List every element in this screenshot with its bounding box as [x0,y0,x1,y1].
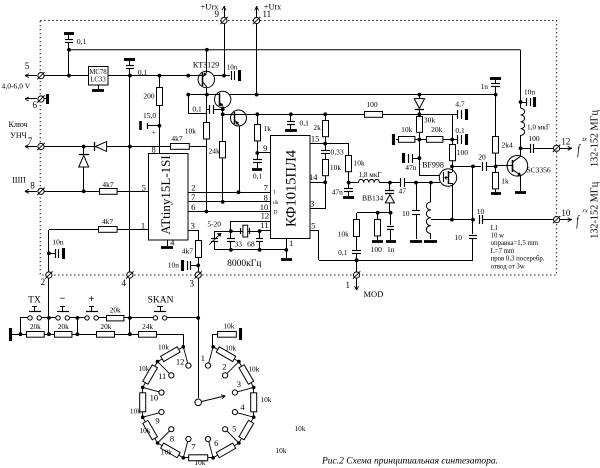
svg-text:2k4: 2k4 [502,140,514,149]
rotary contact 6 [205,436,210,441]
svg-text:0,33: 0,33 [331,147,344,156]
pin 5 [38,73,44,79]
ATtiny pin1 row with resistor 4k7 [117,229,149,231]
wire: row t y=192.3 [188,192,271,194]
capacitor 0,1 to ground at pin9 [257,153,259,160]
svg-text:1k: 1k [264,124,272,133]
resistor 24k [139,332,157,338]
diode on pin7 row (cathode left) [94,142,96,151]
svg-text:3: 3 [310,199,314,209]
junction [76,332,80,336]
wire: MOD bus y=260.2 [319,260,473,262]
resistor 20k c [97,332,115,338]
svg-text:100: 100 [528,134,540,143]
svg-text:132-152 МГц: 132-152 МГц [589,110,600,167]
KF101 pin 3 dogleg [310,208,325,210]
junction [205,210,209,214]
junction [388,181,392,185]
svg-text:4,7: 4,7 [455,99,465,108]
svg-text:10k: 10k [260,395,271,404]
junction [252,415,256,419]
svg-text:1,8 мкГ: 1,8 мкГ [359,171,382,179]
KF101 pin 5 dogleg [310,230,319,232]
junction [186,93,190,97]
BF998 source down to tap [452,183,454,220]
varactor diode BB134 [389,183,391,190]
KT3129 collector down [206,88,208,95]
SC3356 emitter ground [520,175,522,191]
junction [376,211,380,215]
svg-text:10k: 10k [354,158,366,167]
junction [347,181,351,185]
rotary contact 8 [169,427,174,432]
svg-text:отвод от 3w: отвод от 3w [491,263,525,270]
svg-text:8: 8 [264,192,268,202]
resistor 10k ring [142,387,144,417]
transistor KT3129 (PNP) [198,71,214,87]
junction [418,93,422,97]
svg-text:6: 6 [32,100,37,110]
KF101 pin 15 stub [310,143,325,145]
junction [82,189,86,193]
resistor 20k b [55,332,72,338]
junction [450,138,454,142]
svg-text:11: 11 [158,371,166,381]
pin 7 [38,143,44,149]
junction [128,145,132,149]
capacitor 0,1 with chassis bar [452,139,457,141]
pin 11 +Utx [256,24,258,95]
junction [237,441,241,445]
svg-text:1k: 1k [501,176,509,185]
svg-text:0,1: 0,1 [300,118,310,127]
wire: down to pin 2 connector [48,230,50,272]
rotary wiper [195,399,202,406]
wire: to 10k right column [325,143,349,145]
wire: rail A corner down [520,50,522,102]
junction [323,181,327,185]
KF101 pin 1 ground [286,239,288,258]
svg-text:TX: TX [28,295,41,305]
button minus [56,316,60,320]
junction [429,181,433,185]
svg-text:5: 5 [311,221,315,231]
junction [196,316,200,320]
resistor 20k top [107,316,124,321]
svg-text:10k: 10k [225,343,236,352]
svg-text:ШП: ШП [12,176,26,185]
rotary contact 9 [159,410,164,415]
svg-text:20: 20 [478,153,486,162]
junction [76,316,80,320]
KF101 pin 12 stub to crystal [231,221,271,223]
junction [158,74,162,78]
junction [221,112,225,116]
capacitor 0,1 at Q2 emitter [188,95,190,114]
svg-text:rx: rx [582,207,587,214]
resistor 10k ring [158,443,184,458]
junction [222,74,226,78]
capacitor 47 [390,182,401,184]
KF101 pin 11 stub [260,230,271,232]
resistor 200 [159,76,161,87]
svg-text:10k: 10k [295,424,306,433]
pin 5 input wire [44,75,88,77]
svg-text:10k: 10k [140,426,151,435]
ground under MC78 [98,85,100,89]
svg-text:10: 10 [561,208,571,218]
svg-text:2: 2 [191,182,195,192]
svg-text:L=7 mm: L=7 mm [491,248,515,255]
pin 2 [46,272,52,278]
junction [141,386,145,390]
junction [128,316,132,320]
wire: 4k7 to 10k junction [189,146,206,148]
junction [519,146,523,150]
transistor SC3356 (NPN) [507,156,528,177]
KF101 pin 9 stub [257,152,271,154]
junction [323,142,327,146]
svg-text:68: 68 [247,240,255,249]
svg-text:10n: 10n [168,260,180,269]
resistor 4k7 to ATtiny top [171,144,190,150]
svg-text:4k7: 4k7 [102,180,114,189]
junction [205,48,209,52]
svg-text:10k: 10k [194,458,205,467]
svg-text:4,0-6,0 V: 4,0-6,0 V [2,81,31,90]
wire: gate1 to BF998 [416,182,440,184]
svg-text:+: + [89,294,95,305]
wire: oscillator ground rail [215,249,286,251]
capacitor 10n with chassis bar [224,75,230,77]
button TX [28,316,32,320]
svg-text:10k: 10k [338,229,350,238]
junction [82,145,86,149]
junction [221,107,225,111]
svg-text:clk: clk [273,201,279,206]
svg-text:КФ1015ПЛ4: КФ1015ПЛ4 [283,149,299,227]
svg-text:100: 100 [371,245,383,254]
resistor 10k left column [323,160,329,176]
junction [258,229,262,233]
wire 2k to pin15 [325,137,327,144]
svg-text:MOD: MOD [364,289,384,299]
wire: 4k7 to ATtiny pin5 [117,191,149,193]
capacitor 10 coupling to frx [479,215,481,224]
svg-text:10n: 10n [524,87,536,96]
svg-text:20k: 20k [110,305,121,314]
rotary contact 12 [186,363,191,368]
junction [221,200,225,204]
resistor 4k7 above connector pin 3 [196,241,202,258]
resistor 10k ring [239,362,254,388]
capacitor 47n to ground [348,183,350,188]
rotary contact 10 [159,390,164,395]
wire: pin8 row [44,191,100,193]
resistor 10k under KT3129 [206,95,208,123]
pin 6 with terminal [38,96,44,102]
svg-text:20k: 20k [58,322,69,331]
svg-text:8: 8 [30,181,35,191]
KF101 pin 14 stub [310,182,325,184]
svg-text:10: 10 [477,207,485,216]
wire: row D y=211.5 [188,211,271,213]
svg-text:3: 3 [189,278,194,288]
svg-text:tx: tx [582,136,587,143]
svg-text:100: 100 [366,100,378,109]
junction [237,190,241,194]
trimmer capacitor 5-20 [214,231,216,238]
inductor 1,0 mkG [520,102,522,108]
svg-text:10k: 10k [401,125,413,134]
resistor 10k ring [183,457,213,459]
resistor 10k ring [213,443,239,458]
svg-text:8: 8 [170,433,174,443]
resistor 10k gate2 [399,137,415,143]
capacitor 4,7 with chassis bar [452,114,454,140]
rotary contact 2 [223,373,228,378]
resistor 2k [323,112,327,116]
svg-text:BF998: BF998 [422,160,444,169]
svg-text:9: 9 [155,415,159,425]
svg-text:30k: 30k [424,115,436,124]
capacitor 0,33 [325,144,327,150]
capacitor 100 to ftx [521,148,530,150]
svg-text:3: 3 [237,379,241,389]
svg-text:Ключ: Ключ [8,120,27,129]
svg-text:20k: 20k [30,322,41,331]
svg-text:10: 10 [455,233,463,242]
svg-text:10n: 10n [52,238,64,247]
svg-text:100: 100 [457,148,469,157]
transistor BF998 dual-gate MOSFET [439,169,456,186]
junction [211,456,215,460]
resistor 1k [257,114,259,125]
svg-text:33: 33 [234,240,242,249]
svg-text:24k: 24k [208,146,220,155]
terminal bar left of 10k [392,134,395,145]
svg-text:0,1: 0,1 [253,171,263,180]
wire: L1 tap to output [431,219,473,221]
resistor 24k [222,109,224,142]
pin 3 [195,272,201,278]
capacitor 20 coupling [482,162,484,171]
wire: 1k to pin9 junction [257,141,259,153]
svg-text:10k: 10k [185,126,197,135]
junction [205,93,209,97]
svg-text:12: 12 [261,210,270,220]
KT3129 emitter up to rail A [206,50,208,72]
svg-text:оправка=1,5 mm: оправка=1,5 mm [491,240,539,247]
svg-text:10: 10 [150,393,159,403]
wire: cap down to pin5 line [68,50,70,76]
svg-text:1n: 1n [387,245,395,254]
svg-text:5: 5 [142,182,146,192]
junction [47,251,51,255]
svg-text:47n: 47n [332,187,344,196]
button SKAN [153,316,157,320]
svg-text:10k: 10k [138,364,149,373]
rotary contact 3 [232,390,237,395]
junction [211,345,215,349]
wire: gate2 into BF998 [419,175,440,177]
resistor 10k ring [239,417,254,443]
svg-text:SC3356: SC3356 [527,165,551,174]
junction [418,112,422,116]
wire: 24k to ring top-left [183,334,185,347]
junction [141,415,145,419]
svg-text:15: 15 [311,134,320,144]
junction [494,93,498,97]
junction [284,248,288,252]
transistor Q3 (PNP) [231,110,247,126]
wire: pin7 row y=146.5 [44,146,171,148]
resistor 1k emitter [495,166,497,172]
inductor 1,8 mkG [349,182,358,184]
capacitor 10n with chassis bar [521,102,526,104]
svg-text:10k: 10k [248,365,259,374]
svg-text:8000кГц: 8000кГц [227,259,261,269]
capacitor 10 to ground [416,183,418,210]
resistor 100 to ground [377,213,379,219]
resistor 20k gate2 [427,137,443,143]
svg-text:10k: 10k [161,448,172,457]
junction [128,332,132,336]
junction [252,386,256,390]
resistor 4k7 on ShP row [100,189,118,195]
svg-text:0,1: 0,1 [77,37,87,46]
svg-text:4k7: 4k7 [182,246,194,255]
svg-text:1: 1 [346,280,351,290]
svg-text:SKAN: SKAN [148,295,174,305]
svg-text:4: 4 [121,278,126,288]
SC3356 collector up [520,148,522,156]
svg-text:1,0 мкГ: 1,0 мкГ [527,124,550,132]
resistor 10k ring [158,347,184,362]
pin 9 +Urx [224,24,226,76]
ATtiny ground pin 4 [167,240,169,246]
Q2 emitter down [223,108,225,109]
resistor 20k a [27,332,45,338]
junction [450,165,454,169]
capacitor 10n at pin3 column [191,265,198,267]
junction [47,316,51,320]
wire: crystal row [215,231,260,233]
svg-text:12: 12 [561,137,570,147]
wire: lower keypad row y=334.2 [11,334,26,336]
inductor L1 tank coil [430,183,432,202]
svg-text:7: 7 [191,192,195,202]
junction [418,138,422,142]
wire: pin3 column to rotary wiper [198,278,200,398]
voltage regulator MC78LC33 [89,67,109,86]
svg-text:10: 10 [402,209,410,218]
capacitor 1n to ground [390,213,392,225]
svg-text:5: 5 [25,61,30,71]
capacitor 0,1 mid rail with ground [289,112,293,116]
svg-text:MC78: MC78 [89,69,107,76]
wire: button row y=317.9 [20,317,28,319]
wire: 24k down to clk row [222,158,224,202]
svg-text:3: 3 [191,221,195,231]
junction [186,74,190,78]
svg-text:20k: 20k [100,322,111,331]
capacitor 0,1 at MC78 output with chassis bar [124,58,135,61]
svg-text:пров 0,3 посеребр.: пров 0,3 посеребр. [491,256,545,263]
wire: corners/verticals of keypad [20,318,22,334]
capacitor 15,0 electrolytic with terminal plate [139,121,142,130]
wire: varactor node to 10k [357,212,390,214]
svg-text:УНЧ: УНЧ [10,131,27,140]
svg-text:10k: 10k [158,342,169,351]
svg-text:7: 7 [264,183,268,193]
junction [67,74,71,78]
svg-text:+Urx: +Urx [200,2,219,12]
resistor 100 in rail C [365,112,383,118]
svg-text:15,0: 15,0 [143,111,156,120]
svg-text:10k: 10k [330,163,342,172]
wire: MC78 output rail y=75.6 [108,75,198,77]
svg-text:+Utx: +Utx [264,2,282,12]
svg-text:5: 5 [232,424,236,434]
svg-text:5-20: 5-20 [207,220,221,229]
svg-text:20k: 20k [431,125,443,134]
junction [156,441,160,445]
op-amp/IC U1 ATtiny15L-1SI [149,154,189,241]
rotary contact 11 [169,373,174,378]
resistor 10k ring [253,387,255,417]
junction [156,360,160,364]
resistor 10k modulation [354,220,360,237]
junction [258,248,262,252]
svg-text:2: 2 [41,277,46,287]
capacitor 68 [259,231,261,238]
junction [182,456,186,460]
rotary contact 4 [232,410,237,415]
resistor 10k ring [143,362,158,388]
svg-text:10k: 10k [130,407,141,416]
wire: drain to 20 cap [452,166,481,168]
pin 1 MOD [356,260,358,272]
resistor 10k right column [346,156,352,172]
svg-text:12: 12 [176,357,185,367]
resistor 30k [417,117,423,133]
junction [229,248,233,252]
svg-text:9: 9 [263,143,267,153]
svg-text:Рис.2 Схема принципиальная си: Рис.2 Схема принципиальная синтезатора. [321,457,498,467]
wire: 10k down to D row [206,139,208,212]
junction [237,360,241,364]
wire: +3.3V/top rail A y=49.8 [69,49,521,51]
junction [196,264,200,268]
wire: 10n branch at +Urx [214,75,224,77]
svg-text:0,1: 0,1 [455,126,465,135]
junction [182,345,186,349]
capacitor 33 [230,231,232,238]
svg-text:BB134: BB134 [362,193,384,202]
svg-text:10 w: 10 w [491,233,504,240]
svg-text:D: D [274,209,278,215]
junction [450,218,454,222]
junction [255,112,259,116]
svg-text:6: 6 [214,438,218,448]
IC U2 KF1015PL4 [271,136,311,239]
junction [471,165,475,169]
junction [494,165,498,169]
transistor Q2 (PNP) [215,91,231,107]
wire: 3.3V column x=129.9 down to pin 4 [129,76,131,272]
svg-text:2: 2 [222,361,226,371]
